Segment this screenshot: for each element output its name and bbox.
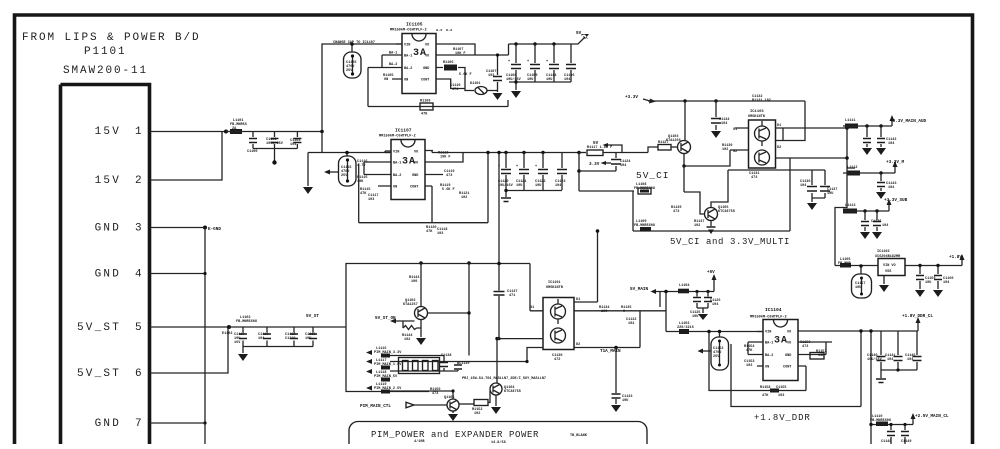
svg-text:BA-2: BA-2: [393, 174, 401, 178]
svg-text:C1148: C1148: [881, 440, 892, 444]
svg-text:102: 102: [474, 412, 480, 416]
svg-text:E1102: E1102: [222, 332, 233, 336]
svg-text:+3.3V_MAIN_AUD: +3.3V_MAIN_AUD: [890, 119, 927, 124]
svg-text:D2: D2: [576, 343, 580, 347]
capacitor C1111: [266, 327, 268, 347]
wire filter column feed down to IC1102: [835, 205, 878, 266]
svg-text:C1145: C1145: [871, 220, 882, 224]
capacitor C1102: [274, 132, 276, 149]
svg-text:102: 102: [461, 196, 467, 200]
GND bus vertical wire: [204, 228, 206, 445]
capacitor C1122: [541, 151, 544, 154]
svg-text:KTC3875S: KTC3875S: [504, 390, 521, 394]
svg-text:47K: 47K: [762, 394, 769, 398]
svg-text:10U/16V: 10U/16V: [498, 183, 514, 188]
svg-text:MM1506M-C6HTPLF-2: MM1506M-C6HTPLF-2: [390, 29, 427, 33]
wire pin2 up to node A: [150, 132, 223, 181]
svg-text:D1101: D1101: [470, 82, 481, 86]
capacitor C1106: [570, 44, 572, 82]
resistor R1109 under IC1105: [420, 103, 433, 110]
capacitor C1145c: [876, 211, 878, 231]
svg-text:473: 473: [673, 210, 679, 214]
svg-text:473: 473: [432, 392, 438, 396]
svg-text:471: 471: [452, 88, 458, 92]
ground below C1134: [711, 131, 721, 138]
svg-text:100U/25V: 100U/25V: [266, 141, 284, 146]
ground below 15V caps: [274, 149, 276, 163]
svg-text:471: 471: [509, 294, 515, 298]
svg-text:BA-1: BA-1: [404, 55, 412, 59]
DDR bank bottom rail: [881, 370, 917, 378]
net arrow 5V_MAIN: [651, 289, 657, 294]
svg-text:10U: 10U: [692, 315, 698, 319]
wire Q1102 collector: [428, 312, 470, 314]
wire VO2 down to bottom rail: [455, 153, 463, 163]
svg-text:D2: D2: [777, 146, 781, 150]
svg-text:10U/16V: 10U/16V: [506, 77, 522, 82]
svg-text:CONT: CONT: [410, 186, 418, 190]
svg-text:E-GND: E-GND: [208, 227, 221, 232]
svg-text:103: 103: [437, 232, 443, 236]
node A junction: [224, 130, 228, 134]
svg-text:10U: 10U: [827, 192, 833, 196]
svg-text:BA-1: BA-1: [765, 342, 773, 346]
capacitor C1140: [880, 331, 882, 370]
IC1103 pin stubs: [741, 128, 783, 158]
component cluster left of IC1107: [363, 162, 365, 175]
svg-text:UM6K1NTN: UM6K1NTN: [546, 286, 563, 290]
svg-text:47K: 47K: [360, 192, 367, 196]
svg-text:C1210: C1210: [285, 337, 296, 341]
svg-text:104: 104: [258, 337, 264, 341]
svg-text:102: 102: [722, 148, 728, 152]
svg-text:VIN: VIN: [404, 44, 410, 48]
svg-text:Q1105: Q1105: [444, 396, 455, 400]
capacitor C1120: [504, 151, 507, 154]
wire IC1102 output: [905, 265, 962, 267]
svg-text:+5V: +5V: [707, 270, 715, 275]
svg-text:47K: 47K: [746, 349, 753, 353]
svg-text:15V: 15V: [95, 175, 121, 187]
ground under Q1102: [420, 320, 422, 338]
transistor Q1106: [705, 208, 718, 221]
svg-text:VO: VO: [787, 331, 791, 335]
svg-text:+: +: [516, 165, 518, 169]
wire CONT loop under IC1107: [359, 164, 488, 223]
wire pin4 to GND bus: [150, 273, 206, 275]
wire pin5 to node B: [150, 326, 230, 328]
capacitor C1137 series in riser: [498, 153, 500, 291]
capacitor C1109: [533, 42, 536, 45]
capacitor C1112: [293, 327, 295, 347]
node B junction: [227, 325, 231, 329]
svg-text:103: 103: [778, 394, 784, 398]
5V_ST feed rail: [346, 264, 530, 392]
wire IC1107 VO jog to rail: [431, 151, 433, 153]
IC1101 pin stubs: [497, 302, 640, 348]
svg-text:R1131 102: R1131 102: [752, 99, 771, 103]
svg-text:C1149: C1149: [901, 440, 912, 444]
svg-text:5V_CI: 5V_CI: [636, 170, 670, 181]
wire Q1106 collector up: [711, 170, 728, 208]
svg-text:0: 0: [623, 310, 625, 314]
svg-text:7: 7: [135, 418, 144, 430]
wire D2 to filter column: [783, 157, 847, 159]
svg-text:5V_ST: 5V_ST: [77, 368, 121, 380]
wire feed IC1104: [666, 292, 763, 332]
wire bottom rail of 5V cap bank: [509, 81, 571, 83]
wire to filter block B: [847, 167, 855, 169]
svg-text:5V_ST: 5V_ST: [306, 314, 319, 319]
ground DDR bank: [876, 379, 886, 383]
svg-text:BA-2: BA-2: [389, 63, 397, 67]
net arrow +3.3V_MAIN_A: [891, 121, 893, 126]
svg-text:104: 104: [628, 322, 634, 326]
3.3V rail wire: [648, 100, 805, 102]
svg-text:MM1506M-C6HTPLF-2: MM1506M-C6HTPLF-2: [379, 135, 416, 139]
capacitor C1157 electrolytic can: [860, 266, 862, 274]
svg-text:10K F: 10K F: [440, 156, 451, 160]
svg-text:+2.5V_MAIN_CL: +2.5V_MAIN_CL: [915, 414, 949, 419]
capacitor C1121: [522, 151, 525, 154]
net arrow +3.3V_MAIN: [894, 167, 896, 173]
svg-text:VIN: VIN: [765, 331, 771, 335]
capacitor C1103: [296, 132, 298, 149]
svg-text:3: 3: [135, 223, 144, 235]
resistor R1144: [403, 321, 421, 330]
capacitor C1138: [443, 356, 445, 372]
svg-text:C1139: C1139: [459, 362, 470, 366]
svg-text:ON: ON: [393, 186, 397, 190]
wire IC1101 D1 up to 5V_CI loop: [597, 231, 599, 302]
svg-text:PIM_POWER and EXPANDER POWER: PIM_POWER and EXPANDER POWER: [371, 430, 539, 440]
svg-text:4/19B: 4/19B: [414, 439, 425, 444]
svg-text:BA-2: BA-2: [404, 67, 412, 71]
node Q1102 feed: [419, 261, 423, 265]
svg-text:+: +: [508, 60, 510, 64]
svg-text:VO: VO: [425, 55, 429, 59]
svg-text:+1.8V: +1.8V: [949, 255, 962, 260]
svg-text:GND: GND: [95, 223, 121, 235]
svg-text:5.6K F: 5.6K F: [442, 188, 455, 192]
capacitor C1136: [811, 170, 813, 198]
svg-text:1: 1: [135, 126, 144, 138]
svg-text:10U: 10U: [516, 184, 522, 188]
svg-text:47K: 47K: [421, 113, 428, 117]
capacitor C1126: [706, 290, 709, 293]
svg-text:ON: ON: [384, 78, 388, 82]
net arrow 5V: [572, 37, 585, 44]
svg-text:5.6K F: 5.6K F: [459, 73, 472, 77]
svg-text:100: 100: [601, 310, 607, 314]
ground under C1107: [493, 93, 503, 100]
svg-text:BA-1: BA-1: [393, 162, 401, 166]
svg-text:D1: D1: [576, 298, 580, 302]
DDR rail down: [870, 331, 872, 444]
svg-text:104: 104: [907, 358, 913, 362]
svg-text:25V: 25V: [346, 69, 353, 73]
svg-text:L1104: L1104: [679, 284, 690, 288]
wire feed IC1101: [529, 264, 531, 311]
svg-text:104: 104: [290, 143, 296, 147]
capacitor C1141: [897, 331, 899, 370]
svg-text:10U: 10U: [855, 286, 861, 290]
svg-text:IC1102: IC1102: [877, 250, 890, 254]
svg-text:IC1105: IC1105: [406, 22, 423, 28]
svg-text:104: 104: [800, 184, 806, 188]
svg-text:BA-1: BA-1: [389, 52, 397, 56]
svg-text:10U: 10U: [622, 399, 628, 403]
wire bottom rail of CI cap bank: [506, 190, 562, 192]
svg-text:+3.3V_SUB: +3.3V_SUB: [884, 198, 908, 203]
svg-text:10K F: 10K F: [455, 52, 466, 56]
svg-text:T1A_MAIN: T1A_MAIN: [600, 349, 621, 354]
wire cap bottom rail: [243, 346, 313, 348]
svg-text:P1101: P1101: [84, 46, 127, 58]
transistor Q1103: [683, 99, 686, 102]
5V output rail from IC1105: [509, 43, 573, 45]
svg-text:D1: D1: [777, 124, 781, 128]
capacitor C1123: [561, 153, 563, 191]
svg-text:GND: GND: [785, 354, 791, 358]
svg-text:KTA1267: KTA1267: [403, 303, 418, 307]
svg-text:VO: VO: [425, 44, 429, 48]
svg-text:+: +: [546, 60, 548, 64]
svg-text:CONT: CONT: [783, 366, 791, 370]
svg-text:KTC3875S: KTC3875S: [718, 210, 735, 214]
svg-text:103: 103: [488, 74, 494, 78]
wire 5V_CI branch loop: [633, 158, 790, 231]
svg-text:102: 102: [694, 224, 700, 228]
IC1107 left pin stubs: [364, 151, 391, 186]
resistor R1127 at Q1103 base: [648, 147, 658, 153]
svg-text:104: 104: [888, 142, 894, 146]
svg-text:473: 473: [751, 176, 757, 180]
svg-text:100: 100: [411, 280, 417, 284]
ground under C1136: [812, 198, 825, 202]
svg-text:GND: GND: [412, 174, 418, 178]
capacitor C1113: [312, 327, 314, 347]
svg-text:CONT: CONT: [421, 79, 429, 83]
diode D1101: [475, 87, 487, 95]
svg-text:104: 104: [620, 164, 626, 168]
svg-text:PRJ_1SW-S4-T04_MASLLN7_2DE/I_S: PRJ_1SW-S4-T04_MASLLN7_2DE/I_SOY_MASLLN7: [462, 376, 546, 381]
5V_MAIN rail: [655, 292, 714, 308]
wire pin7 to GND bus: [150, 422, 206, 424]
svg-text:ON: ON: [765, 366, 769, 370]
svg-text:FROM LIPS & POWER B/D: FROM LIPS & POWER B/D: [22, 32, 201, 44]
capacitor C1107: [497, 55, 499, 92]
svg-text:+3.3V: +3.3V: [625, 95, 638, 100]
IC1105 right pin stubs: [436, 44, 509, 91]
capacitor C1141a: [866, 126, 868, 147]
node riser x469: [467, 261, 471, 265]
net arrow BA-2: [606, 162, 611, 164]
15V rail wire: [226, 131, 322, 133]
wire CONT loop under IC1105: [368, 68, 508, 107]
capacitor C1114: [552, 42, 555, 45]
wire cap bottom rail 15V: [253, 148, 297, 150]
ground 5V_MAIN bank: [702, 308, 704, 313]
capacitor C1115 electrolytic can: [346, 153, 348, 157]
svg-text:o-x: o-x: [436, 29, 443, 33]
svg-text:IC1107: IC1107: [395, 128, 412, 134]
svg-text:VIN: VIN: [393, 151, 399, 155]
signal arrow into C1115: [330, 171, 338, 173]
svg-text:104: 104: [721, 122, 727, 126]
svg-text:FB-MNR5608: FB-MNR5608: [236, 320, 257, 324]
ground 5V cap bank: [515, 82, 517, 90]
net arrow BA-1: [608, 145, 622, 153]
net arrow +3.3V_SUB: [888, 205, 890, 211]
capacitor C1108: [514, 42, 517, 45]
svg-text:16V: 16V: [234, 341, 241, 345]
capacitor C1105 electrolytic can: [351, 44, 353, 52]
capacitor C1134 on 3.3V rail: [714, 99, 717, 102]
svg-text:104: 104: [943, 281, 949, 285]
svg-text:+: +: [527, 60, 529, 64]
IC1104 notch: [774, 320, 788, 327]
net arrow +1.8V_DDR_CL: [917, 323, 919, 331]
svg-text:104: 104: [712, 303, 718, 307]
svg-text:GND: GND: [95, 269, 121, 281]
capacitor C1143b: [880, 173, 882, 191]
transistor Q1102: [415, 307, 428, 320]
svg-text:IC1101: IC1101: [548, 281, 561, 285]
IC1107 notch: [401, 140, 415, 147]
svg-text:o-x: o-x: [446, 29, 453, 33]
transistor Q1104: [488, 391, 490, 403]
wire signal rows: [390, 356, 527, 392]
svg-text:+1.8V_DDR: +1.8V_DDR: [754, 413, 811, 423]
svg-text:15V: 15V: [95, 126, 121, 138]
IC1104 left pin stubs: [748, 332, 763, 367]
wire pin6 up to node B: [150, 327, 229, 373]
svg-text:VIN VO: VIN VO: [883, 264, 896, 268]
svg-text:6: 6: [135, 368, 144, 380]
svg-text:R1127: R1127: [658, 141, 669, 145]
resistor R1117: [579, 152, 586, 154]
wire D1 top to filter column: [783, 127, 847, 129]
resistor R1106 blob: [444, 65, 457, 71]
svg-text:IC1104: IC1104: [765, 307, 782, 313]
svg-text:102: 102: [404, 338, 410, 342]
svg-text:472: 472: [554, 358, 560, 362]
resistor R1152: [459, 403, 474, 405]
ground CI cap bank: [505, 191, 507, 198]
svg-text:103: 103: [746, 364, 752, 368]
svg-text:PIM_MAIN_CTL: PIM_MAIN_CTL: [360, 404, 391, 409]
IC1104 right pin stubs: [798, 331, 918, 366]
svg-text:10U: 10U: [305, 337, 311, 341]
svg-text:VO: VO: [414, 151, 418, 155]
svg-text:25V: 25V: [341, 174, 348, 178]
svg-text:VO: VO: [414, 162, 418, 166]
svg-text:5V_MAIN: 5V_MAIN: [630, 287, 648, 292]
svg-text:R1109: R1109: [420, 100, 431, 104]
svg-text:104: 104: [882, 224, 888, 228]
PIM_POWER box: [349, 422, 647, 449]
svg-text:104: 104: [887, 358, 893, 362]
net arrow +5V: [713, 280, 715, 292]
IC1104 lower loop wires: [709, 332, 806, 391]
wire riser x488: [487, 153, 489, 223]
capacitor C1137m: [824, 170, 826, 198]
svg-text:2: 2: [135, 175, 144, 187]
svg-text:L1112: L1112: [847, 166, 858, 170]
svg-text:14.8/58: 14.8/58: [491, 440, 506, 444]
svg-text:10U/16V: 10U/16V: [867, 357, 883, 362]
node 5V_CI junction column: [577, 151, 581, 155]
wire IC1101 D2 loop: [640, 311, 666, 348]
wire riser to IC1105: [322, 44, 402, 132]
ground below C1110: [242, 347, 244, 354]
svg-text:10U: 10U: [925, 281, 931, 285]
wire Q1104 collector riser: [496, 339, 498, 383]
svg-text:25V: 25V: [713, 355, 720, 359]
svg-text:3.3V: 3.3V: [589, 162, 600, 167]
IC1107 right pin stubs: [425, 151, 455, 187]
ground filter A: [862, 148, 872, 155]
wire +2.5V branch: [871, 424, 913, 426]
svg-text:IC1103: IC1103: [750, 110, 764, 114]
ground under Q1104: [495, 395, 497, 406]
svg-text:3A: 3A: [774, 336, 788, 347]
svg-text:C1138: C1138: [441, 354, 452, 358]
IC1105 left pin stubs: [368, 44, 402, 79]
capacitor C1149: [904, 425, 906, 431]
svg-text:+: +: [535, 165, 537, 169]
capacitor C1152 electrolytic can: [719, 332, 721, 338]
capacitor C1133: [615, 348, 617, 405]
capacitor C1144c: [864, 211, 866, 231]
capacitor C1159: [918, 264, 921, 267]
5V_CI rail from IC1107: [432, 152, 579, 154]
capacitor C1148: [890, 425, 892, 431]
svg-text:UM6K1NTN: UM6K1NTN: [748, 115, 765, 119]
inductor L1108: [579, 190, 634, 192]
net arrow +1.8V: [961, 260, 963, 266]
IC1105 notch: [412, 34, 426, 41]
capacitor C1160: [936, 264, 939, 267]
svg-text:L1111: L1111: [845, 119, 856, 123]
capacitor C1139: [457, 362, 459, 365]
wire 15V branch to IC1107: [308, 152, 391, 154]
ground under IC1102: [883, 276, 885, 285]
connector P1101 body: [61, 85, 150, 445]
svg-text:VSS: VSS: [885, 270, 891, 274]
svg-text:5V_CI and 3.3V_MULTI: 5V_CI and 3.3V_MULTI: [670, 237, 790, 247]
svg-text:5: 5: [135, 322, 144, 334]
ground at 15V branch: [307, 153, 309, 187]
svg-text:5V: 5V: [576, 31, 582, 36]
svg-text:C1100: C1100: [247, 150, 258, 154]
svg-text:ON: ON: [404, 79, 408, 83]
svg-text:R1106: R1106: [443, 61, 454, 65]
svg-text:5V_ST: 5V_ST: [77, 322, 121, 334]
capacitor C1146: [916, 331, 918, 370]
svg-text:+1.8V_DDR_CL: +1.8V_DDR_CL: [902, 314, 933, 319]
transistor Q1105: [452, 391, 454, 399]
svg-text:BA-2: BA-2: [765, 354, 773, 358]
svg-text:4: 4: [135, 269, 144, 281]
ground under C1133: [611, 405, 621, 412]
capacitor C1142a: [880, 126, 882, 147]
svg-text:VO: VO: [787, 342, 791, 346]
node GND junction: [203, 226, 207, 230]
svg-text:GND: GND: [95, 418, 121, 430]
svg-text:CHANGE CAP TO IC1107: CHANGE CAP TO IC1107: [333, 41, 375, 45]
